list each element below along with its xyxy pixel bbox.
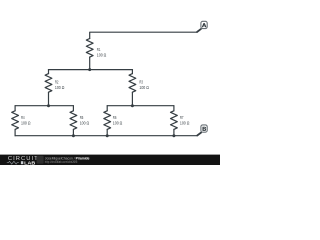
svg-text:100 Ω: 100 Ω [80, 121, 90, 127]
svg-text:R7: R7 [180, 115, 184, 121]
svg-text:100 Ω: 100 Ω [97, 52, 107, 58]
svg-text:R4: R4 [21, 115, 25, 121]
svg-text:R6: R6 [113, 115, 117, 121]
svg-text:http://circuitlab.com/cbb26f5: http://circuitlab.com/cbb26f5 [45, 160, 78, 164]
svg-text:100 Ω: 100 Ω [55, 85, 65, 91]
svg-text:R1: R1 [97, 47, 101, 53]
svg-text:R2: R2 [55, 80, 59, 86]
svg-text:LAB: LAB [24, 160, 36, 165]
svg-text:100 Ω: 100 Ω [21, 121, 31, 127]
svg-text:100 Ω: 100 Ω [113, 121, 123, 127]
svg-text:R5: R5 [80, 115, 84, 121]
svg-text:100 Ω: 100 Ω [139, 85, 149, 91]
svg-text:R3: R3 [139, 80, 143, 86]
svg-text:100 Ω: 100 Ω [180, 121, 190, 127]
